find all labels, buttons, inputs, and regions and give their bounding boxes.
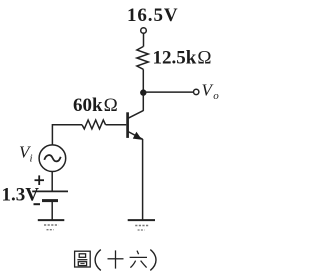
transistor Q1 collector lead (128, 111, 143, 119)
caption glyph LIU (six) (130, 251, 147, 268)
node junction dot (140, 89, 146, 95)
caption right parenthesis (150, 250, 156, 271)
wire R1 to node (142, 69, 144, 95)
label Vi (19, 143, 33, 165)
wire node to output terminal (143, 91, 193, 93)
wire base to resistor R2 (106, 124, 127, 126)
resistor R2 60k (82, 120, 106, 129)
source sine symbol (44, 155, 60, 161)
svg-text:i: i (30, 152, 33, 164)
supply terminal (141, 28, 147, 34)
wire battery to ground (51, 201, 53, 220)
ground left (38, 220, 65, 230)
wire node to collector (142, 93, 144, 111)
resistor R1 12.5k (137, 47, 148, 70)
wire emitter to ground (142, 139, 144, 220)
wire source to battery (51, 172, 53, 192)
plus sign (35, 175, 45, 185)
wire terminal to R1 (143, 33, 145, 46)
svg-text:1.3V: 1.3V (2, 184, 40, 205)
battery V1 negative plate (42, 199, 58, 202)
wire R2 to source corner (52, 125, 82, 145)
source VS circle (39, 145, 66, 172)
caption glyph SHI (ten) (108, 250, 124, 268)
label Vo (202, 81, 220, 103)
caption glyph TU (figure) (75, 251, 91, 267)
transistor Q1 base bar (126, 112, 129, 138)
caption left parenthesis (95, 250, 101, 271)
svg-text:12.5kΩ: 12.5kΩ (153, 48, 212, 69)
output terminal (194, 89, 199, 94)
battery V1 positive plate (32, 190, 68, 192)
svg-text:o: o (213, 90, 219, 102)
svg-text:60kΩ: 60kΩ (73, 95, 118, 116)
transistor Q1 emitter arrow (133, 132, 142, 140)
ground right (128, 220, 155, 230)
minus sign (34, 203, 41, 205)
transistor Q1 emitter lead (128, 132, 143, 140)
svg-text:16.5V: 16.5V (127, 5, 178, 26)
